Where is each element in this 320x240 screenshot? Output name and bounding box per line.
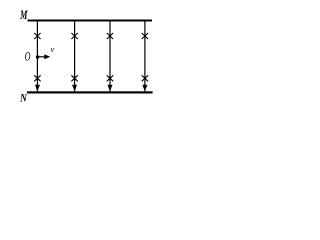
field cross X3a on wire 3 (107, 33, 113, 39)
current arrowhead on wire 4 (142, 85, 147, 92)
field cross X1b on wire 1 (34, 75, 40, 81)
wire 4 (144, 21, 146, 92)
node O (junction dot on wire 1) (36, 55, 40, 59)
wire 2 (74, 21, 76, 92)
field cross X3b on wire 3 (107, 75, 113, 81)
field cross X4a on wire 4 (142, 33, 148, 39)
current arrowhead on wire 1 (35, 85, 40, 92)
wire 3 (109, 21, 111, 92)
field cross X1a on wire 1 (34, 33, 40, 39)
current arrowhead on wire 2 (72, 85, 77, 92)
rail N (bottom horizontal conductor) (27, 91, 153, 93)
svg-text:O: O (25, 49, 31, 63)
field cross X2a on wire 2 (71, 33, 77, 39)
velocity vector v (arrow from O to the right) (38, 56, 45, 58)
svg-text:v: v (51, 44, 55, 54)
field cross X4b on wire 4 (142, 75, 148, 81)
svg-text:M: M (19, 8, 28, 22)
field cross X2b on wire 2 (71, 75, 77, 81)
svg-text:N: N (19, 92, 27, 104)
wire 1 (36, 21, 38, 92)
rail M (top horizontal conductor) (28, 20, 153, 22)
current arrowhead on wire 3 (108, 85, 113, 92)
